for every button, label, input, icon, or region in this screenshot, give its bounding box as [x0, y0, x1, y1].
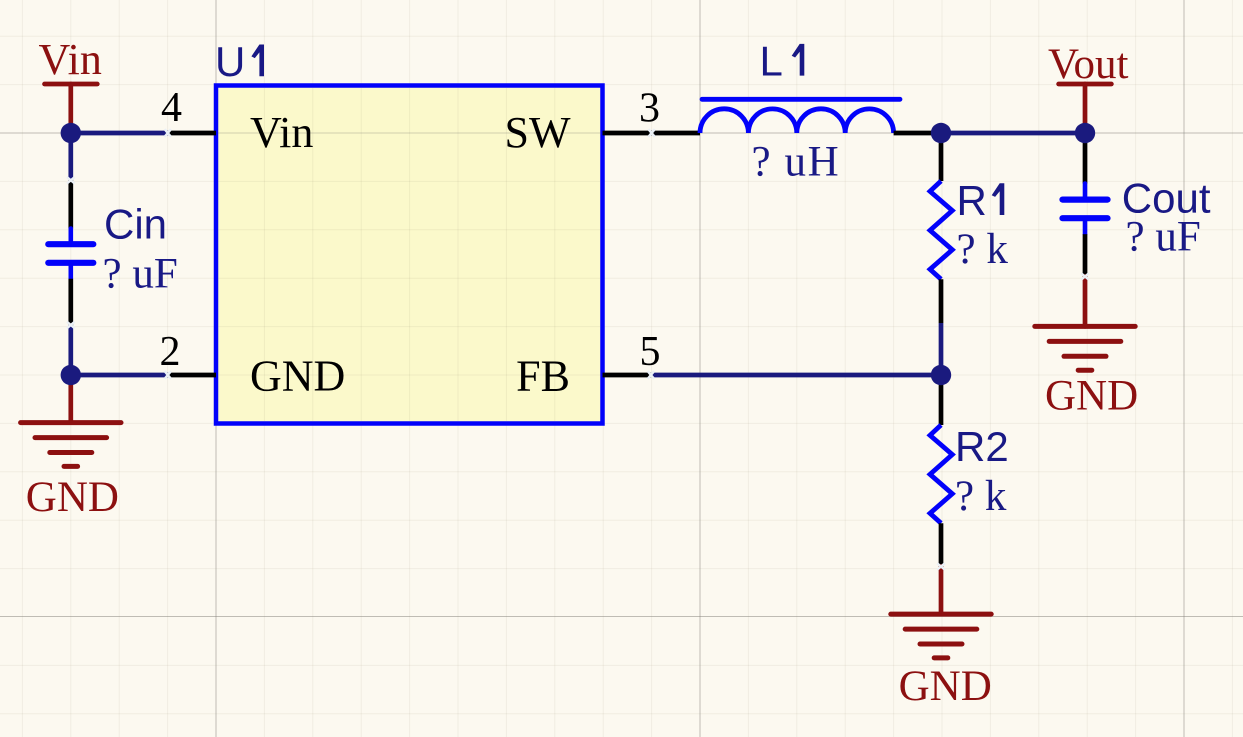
svg-text:R: R — [957, 177, 987, 224]
ground symbol GND (input) — [21, 375, 121, 466]
junction Vout node — [1075, 123, 1095, 143]
svg-text:Vin: Vin — [39, 35, 102, 84]
svg-text:? uF: ? uF — [103, 251, 178, 298]
svg-text:R2: R2 — [955, 423, 1009, 470]
pin 3 (SW) — [603, 131, 652, 136]
capacitor Cout — [1063, 133, 1108, 277]
svg-text:2: 2 — [160, 329, 181, 375]
pin 5 (FB) — [603, 373, 652, 378]
svg-text:4: 4 — [161, 85, 182, 131]
svg-text:3: 3 — [639, 86, 660, 132]
resistor R1 — [930, 133, 952, 323]
inductor L1 — [652, 99, 941, 133]
wire Vin to Cin — [68, 133, 73, 180]
wire R1 to FB node — [939, 323, 944, 375]
pin 2 (GND) — [168, 373, 217, 378]
svg-text:GND: GND — [1045, 372, 1138, 419]
ground symbol GND (Cout) — [1035, 277, 1135, 371]
svg-text:? k: ? k — [955, 473, 1007, 520]
IC U1 body — [216, 86, 603, 424]
svg-text:GND: GND — [899, 663, 992, 710]
power port Vout — [1059, 84, 1112, 133]
wire Cin to GND junction — [68, 325, 73, 375]
junction Vin/Cin node — [61, 123, 81, 143]
svg-text:Cin: Cin — [104, 201, 167, 248]
designator L1 — [760, 38, 805, 85]
junction FB node — [931, 365, 951, 385]
svg-text:SW: SW — [505, 108, 571, 157]
grid lines over IC fill — [218, 88, 600, 421]
svg-text:? k: ? k — [957, 226, 1009, 273]
pin end markers — [67, 129, 1089, 570]
pin 4 (Vin) — [168, 131, 217, 136]
power port Vin — [45, 84, 98, 133]
svg-text:Vout: Vout — [1048, 41, 1129, 88]
svg-text:? uF: ? uF — [1126, 214, 1201, 261]
svg-text:U: U — [215, 38, 245, 85]
ground symbol GND (R2) — [891, 567, 991, 658]
designator R1 — [957, 177, 1005, 224]
svg-text:5: 5 — [640, 329, 661, 375]
designator U1 — [215, 38, 264, 85]
wire FB row — [651, 373, 941, 378]
svg-text:Vin: Vin — [250, 108, 313, 157]
capacitor Cin — [48, 180, 93, 325]
junction Cin/GND/pin2 node — [61, 365, 81, 385]
svg-text:GND: GND — [26, 474, 119, 521]
wire pin2 row — [71, 373, 168, 378]
svg-text:GND: GND — [250, 351, 345, 400]
svg-text:L: L — [760, 38, 783, 85]
junction SW/L1/R1 node — [931, 123, 951, 143]
svg-text:? uH: ? uH — [752, 139, 841, 186]
wire SW node to Vout node — [941, 131, 1085, 136]
svg-text:FB: FB — [516, 351, 570, 400]
wire Vin rail horizontal — [71, 131, 168, 136]
resistor R2 — [930, 375, 952, 567]
